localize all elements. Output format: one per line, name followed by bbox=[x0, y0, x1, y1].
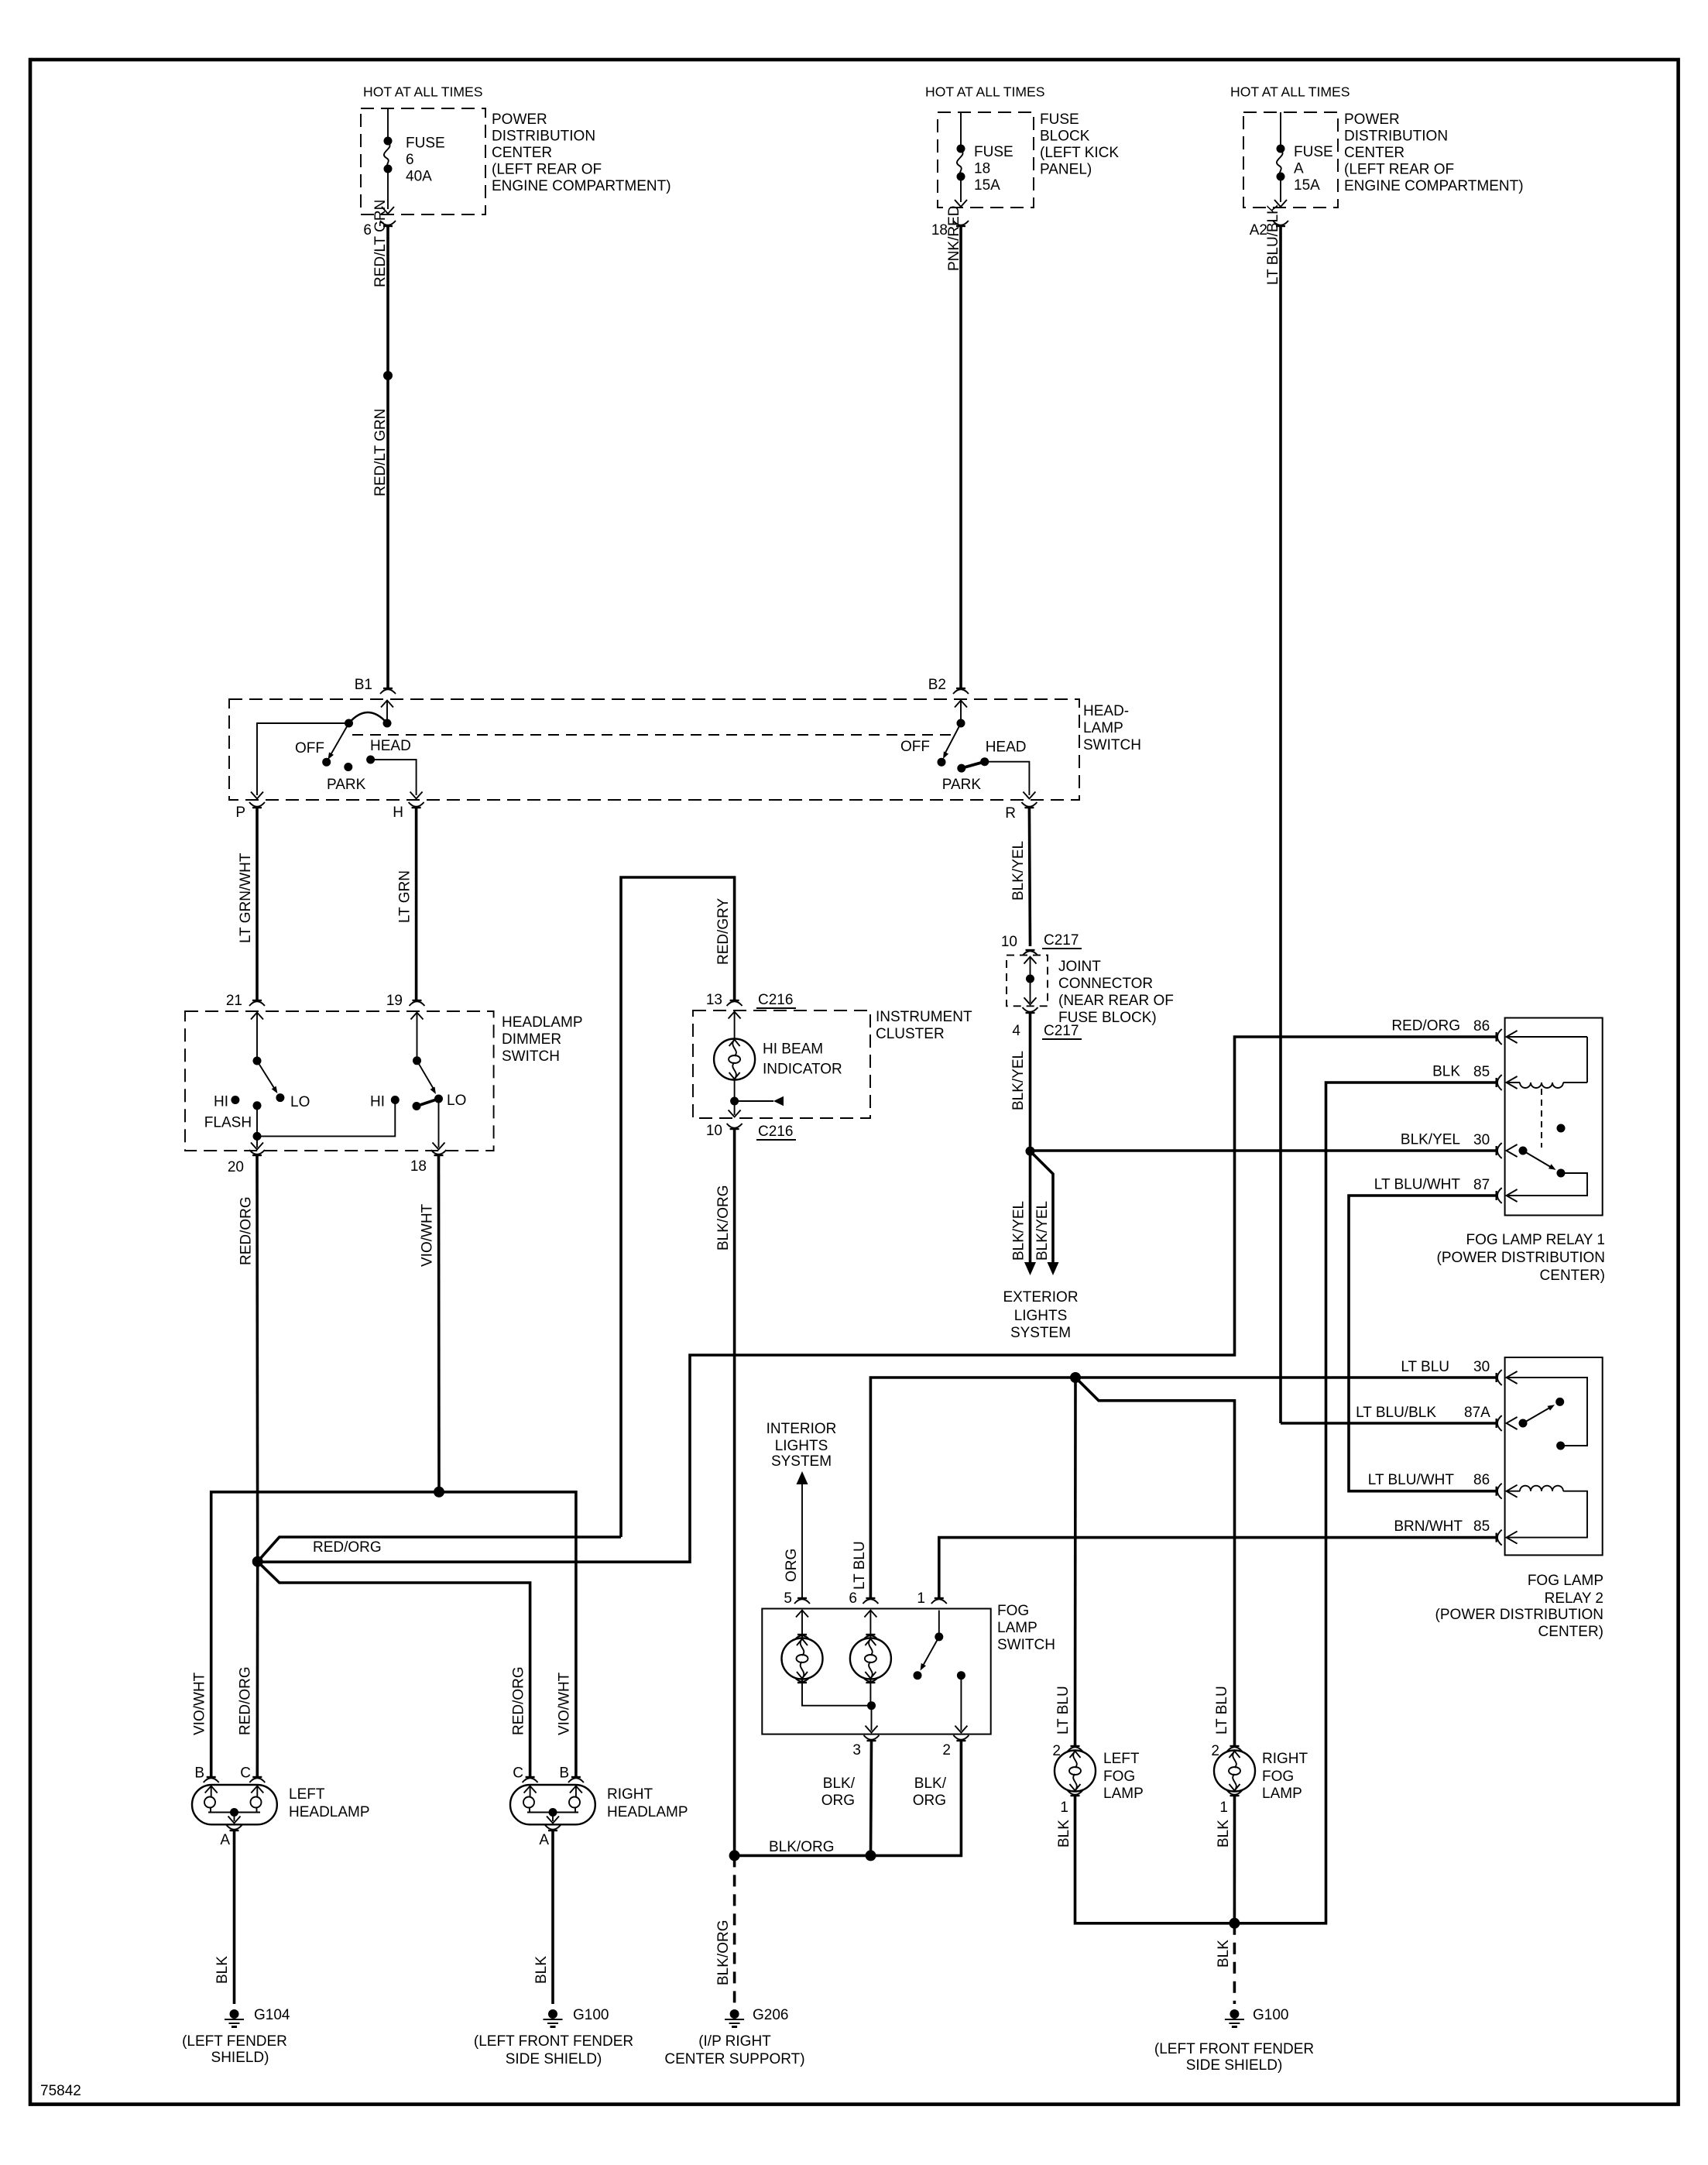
svg-text:15A: 15A bbox=[1294, 177, 1320, 194]
headlamp switch mechanical link (dashed) bbox=[352, 734, 954, 736]
svg-text:JOINT: JOINT bbox=[1058, 959, 1101, 975]
svg-text:LT BLU/BLK: LT BLU/BLK bbox=[1265, 204, 1281, 285]
relay 1 actuator (dashed) bbox=[1541, 1089, 1542, 1148]
svg-text:B2: B2 bbox=[928, 677, 946, 693]
svg-text:20: 20 bbox=[228, 1159, 244, 1175]
svg-text:HI: HI bbox=[214, 1094, 228, 1110]
fog lamp relay 2 box bbox=[1435, 1357, 1603, 1640]
svg-text:CLUSTER: CLUSTER bbox=[876, 1026, 945, 1042]
wire BLK (left fog lamp to ground junction) bbox=[1056, 1796, 1230, 1923]
right headlamp bbox=[510, 1785, 688, 1824]
svg-text:PANEL): PANEL) bbox=[1040, 162, 1092, 178]
svg-text:LAMP: LAMP bbox=[997, 1620, 1037, 1636]
svg-text:RED/ORG: RED/ORG bbox=[511, 1666, 527, 1735]
svg-text:(LEFT FRONT FENDER: (LEFT FRONT FENDER bbox=[474, 2033, 633, 2050]
svg-text:RED/ORG: RED/ORG bbox=[238, 1196, 255, 1265]
connector C216 pin 10 bbox=[706, 1123, 796, 1140]
svg-text:30: 30 bbox=[1473, 1132, 1490, 1148]
svg-text:2: 2 bbox=[1211, 1743, 1219, 1759]
connector H bbox=[393, 802, 424, 821]
right PARK-HEAD bridge bbox=[962, 762, 985, 768]
svg-text:HEAD: HEAD bbox=[986, 739, 1027, 756]
fog lamp switch box bbox=[762, 1603, 1055, 1734]
svg-text:HEADLAMP: HEADLAMP bbox=[502, 1014, 583, 1031]
svg-text:ORG: ORG bbox=[784, 1549, 800, 1582]
fog switch open contact bbox=[914, 1671, 922, 1680]
svg-text:G100: G100 bbox=[1253, 2007, 1288, 2023]
svg-text:VIO/WHT: VIO/WHT bbox=[420, 1203, 436, 1267]
svg-text:LEFT: LEFT bbox=[289, 1786, 325, 1803]
connector right headlamp A bbox=[539, 1825, 561, 1848]
dimmer left LO contact bbox=[276, 1093, 310, 1110]
wire RED/ORG branch to fog lamp relay 1 pin 86 bbox=[258, 1037, 1497, 1562]
svg-text:A: A bbox=[539, 1832, 549, 1848]
svg-text:SYSTEM: SYSTEM bbox=[771, 1453, 832, 1470]
svg-text:FLASH: FLASH bbox=[204, 1115, 252, 1131]
svg-text:86: 86 bbox=[1473, 1472, 1490, 1488]
svg-text:G206: G206 bbox=[753, 2007, 788, 2023]
wire BLK/YEL (splice to fog lamp relay 1 pin 30) bbox=[1031, 1149, 1497, 1152]
connector dimmer 19 bbox=[386, 993, 425, 1009]
svg-text:HEADLAMP: HEADLAMP bbox=[289, 1804, 370, 1820]
svg-text:10: 10 bbox=[1001, 934, 1017, 950]
wire BLK/ORG (fog switch 2 to splice) bbox=[871, 1741, 962, 1855]
svg-text:LT BLU: LT BLU bbox=[852, 1541, 868, 1590]
connector C217 pin 10 bbox=[1001, 932, 1082, 956]
fuse block box (fuse 18) bbox=[938, 112, 1119, 208]
connector pin A2 (PDC output) bbox=[1250, 221, 1288, 238]
svg-text:CENTER SUPPORT): CENTER SUPPORT) bbox=[664, 2051, 804, 2067]
svg-text:BLK/ORG: BLK/ORG bbox=[715, 1920, 732, 1985]
wire VIO/WHT (dimmer 18 down to junction) bbox=[420, 1155, 440, 1492]
joint connector bbox=[1007, 956, 1174, 1026]
dimmer right HI contact bbox=[370, 1094, 400, 1110]
connector left fog lamp 1 bbox=[1060, 1790, 1082, 1816]
dimmer left entry arrow bbox=[251, 1013, 263, 1058]
svg-text:(LEFT FRONT FENDER: (LEFT FRONT FENDER bbox=[1154, 2041, 1314, 2057]
dimmer left wiper (to LO) bbox=[257, 1061, 277, 1093]
svg-text:FOG: FOG bbox=[1103, 1769, 1135, 1785]
svg-text:BLOCK: BLOCK bbox=[1040, 129, 1090, 145]
relay 2 pin 30 bbox=[1401, 1359, 1517, 1385]
dimmer left pivot bbox=[253, 1057, 262, 1065]
svg-text:87: 87 bbox=[1473, 1177, 1490, 1193]
connector C216 pin 13 bbox=[706, 992, 796, 1008]
svg-text:5: 5 bbox=[784, 1590, 792, 1607]
connector right fog lamp 1 bbox=[1219, 1790, 1242, 1816]
wire RED/GRY (cluster 13 to RED/ORG junction) bbox=[621, 877, 735, 1537]
relay 1 upper fixed contact bbox=[1557, 1124, 1566, 1133]
svg-text:ENGINE COMPARTMENT): ENGINE COMPARTMENT) bbox=[1344, 178, 1524, 194]
connector R bbox=[1005, 802, 1037, 822]
svg-text:CENTER): CENTER) bbox=[1540, 1268, 1605, 1284]
wire HEAD contact to H terminal (inside switch) bbox=[371, 760, 423, 799]
svg-text:BLK: BLK bbox=[1216, 1940, 1232, 1968]
fog switch illumination bulb 2 bbox=[850, 1611, 891, 1683]
headlamp switch box bbox=[229, 699, 1141, 800]
svg-text:POWER: POWER bbox=[492, 112, 547, 128]
connector C217 pin 4 bbox=[1012, 1007, 1082, 1039]
svg-text:BLK/YEL: BLK/YEL bbox=[1010, 841, 1027, 901]
dimmer right pivot bbox=[413, 1056, 421, 1065]
dimmer right entry arrow bbox=[411, 1013, 424, 1058]
headlamp switch B1 entry arrow bbox=[381, 701, 393, 721]
svg-text:SYSTEM: SYSTEM bbox=[1010, 1325, 1071, 1341]
relay 1 movable contact bbox=[1519, 1147, 1556, 1170]
relay 1 pin 30 bbox=[1401, 1132, 1518, 1159]
wire ORG (fog switch 5 to interior lights system) bbox=[784, 1471, 808, 1598]
svg-text:BLK/YEL: BLK/YEL bbox=[1401, 1132, 1460, 1148]
splice BLK/YEL bbox=[1026, 1147, 1035, 1156]
svg-text:FOG LAMP: FOG LAMP bbox=[1528, 1573, 1603, 1589]
svg-text:18: 18 bbox=[410, 1158, 427, 1175]
connector B2 bbox=[928, 677, 969, 694]
connector dimmer 20 bbox=[228, 1150, 265, 1175]
wire BLK (right fog lamp to ground junction) bbox=[1216, 1796, 1235, 1923]
junction VIO/WHT bbox=[434, 1487, 444, 1498]
power distribution center box (fuse 6) bbox=[361, 108, 671, 214]
svg-text:FUSE: FUSE bbox=[406, 136, 445, 152]
svg-text:FOG: FOG bbox=[997, 1603, 1029, 1619]
svg-text:HEADLAMP: HEADLAMP bbox=[607, 1804, 688, 1820]
svg-text:FOG: FOG bbox=[1262, 1769, 1294, 1785]
svg-text:VIO/WHT: VIO/WHT bbox=[192, 1672, 208, 1735]
svg-text:13: 13 bbox=[706, 992, 722, 1008]
wire BLK/ORG (fog switch 3 to splice) bbox=[821, 1741, 872, 1855]
svg-text:CENTER: CENTER bbox=[492, 145, 552, 161]
connector left headlamp B bbox=[194, 1765, 218, 1783]
wire LT GRN/WHT (P to dimmer 21) bbox=[238, 808, 257, 1000]
fuse 18 15A bbox=[955, 112, 1013, 207]
wire RED/ORG (dimmer 20 down to junction) bbox=[238, 1155, 258, 1562]
svg-text:INSTRUMENT: INSTRUMENT bbox=[876, 1009, 972, 1025]
right HEAD contact bbox=[980, 739, 1026, 767]
svg-text:1: 1 bbox=[1219, 1800, 1228, 1816]
fuse 6 40A bbox=[382, 108, 445, 214]
svg-text:LEFT: LEFT bbox=[1103, 1751, 1140, 1767]
svg-text:21: 21 bbox=[226, 993, 242, 1009]
left fog lamp bbox=[1055, 1751, 1144, 1803]
relay 2 coil bbox=[1507, 1486, 1587, 1538]
relay 1 lower fixed contact (to 87) bbox=[1507, 1169, 1587, 1196]
svg-text:RED/LT GRN: RED/LT GRN bbox=[372, 200, 389, 287]
svg-text:(LEFT KICK: (LEFT KICK bbox=[1040, 145, 1119, 161]
wire LT GRN (H to dimmer 19) bbox=[397, 808, 417, 1000]
left OFF contact bbox=[295, 740, 331, 767]
svg-text:BLK: BLK bbox=[214, 1956, 231, 1984]
svg-text:BLK/YEL: BLK/YEL bbox=[1010, 1051, 1027, 1110]
wire BLK/YEL to exterior lights (right arrow) bbox=[1031, 1151, 1059, 1275]
wire LT BLU branch to right fog lamp bbox=[1075, 1378, 1235, 1746]
ground G100 (left front fender side shield) bbox=[1154, 2007, 1314, 2074]
wire LT BLU/BLK (fuse A to fog lamp relay 2 pin 87A) bbox=[1265, 204, 1497, 1423]
instrument cluster box bbox=[693, 1009, 972, 1118]
connector right headlamp B bbox=[559, 1765, 584, 1783]
svg-text:SWITCH: SWITCH bbox=[1083, 737, 1141, 753]
relay 2 movable contact bbox=[1519, 1405, 1555, 1427]
dimmer right bridge contact bbox=[413, 1099, 439, 1110]
svg-text:LIGHTS: LIGHTS bbox=[1014, 1308, 1068, 1324]
svg-text:BRN/WHT: BRN/WHT bbox=[1394, 1518, 1463, 1535]
svg-text:6: 6 bbox=[363, 222, 372, 238]
svg-text:RED/GRY: RED/GRY bbox=[715, 897, 732, 965]
wire LT BLU branch to left fog lamp bbox=[1074, 1378, 1077, 1746]
headlamp dimmer switch box bbox=[185, 1011, 583, 1151]
wire BLK (left headlamp to G104) bbox=[214, 1830, 235, 2004]
relay 1 pin 85 bbox=[1432, 1064, 1518, 1091]
svg-text:C: C bbox=[513, 1765, 523, 1782]
svg-text:EXTERIOR: EXTERIOR bbox=[1003, 1289, 1078, 1306]
label INTERIOR LIGHTS SYSTEM bbox=[767, 1421, 837, 1470]
ground G206 bbox=[664, 2007, 804, 2067]
svg-text:RIGHT: RIGHT bbox=[1262, 1751, 1308, 1767]
wire RED/ORG branch to right headlamp C bbox=[258, 1562, 530, 1777]
svg-text:LT BLU/WHT: LT BLU/WHT bbox=[1368, 1472, 1455, 1488]
svg-text:G100: G100 bbox=[573, 2007, 609, 2023]
ground G104 bbox=[182, 2007, 290, 2066]
svg-text:BLK: BLK bbox=[1056, 1820, 1072, 1848]
svg-text:C216: C216 bbox=[758, 1124, 793, 1140]
wire LT BLU (fog switch 6 to junction and relay 2 pin 30) bbox=[852, 1378, 1497, 1598]
splice BLK/ORG (main) bbox=[729, 1850, 740, 1861]
svg-text:(LEFT FENDER: (LEFT FENDER bbox=[182, 2033, 287, 2050]
svg-text:DISTRIBUTION: DISTRIBUTION bbox=[492, 129, 595, 145]
connector fog switch 3 bbox=[852, 1735, 879, 1758]
svg-text:BLK: BLK bbox=[533, 1956, 550, 1984]
connector fog switch 2 bbox=[942, 1735, 969, 1758]
svg-text:ORG: ORG bbox=[913, 1793, 946, 1809]
connector fog switch 6 bbox=[849, 1590, 878, 1607]
svg-text:C: C bbox=[240, 1765, 251, 1782]
svg-text:19: 19 bbox=[386, 993, 403, 1009]
connector dimmer 21 bbox=[226, 993, 265, 1009]
wire VIO/WHT distribution (to both headlamps B) bbox=[211, 1492, 576, 1777]
svg-text:P: P bbox=[235, 805, 245, 821]
connector dimmer 18 bbox=[410, 1150, 447, 1175]
svg-text:1: 1 bbox=[917, 1590, 925, 1607]
connector fog switch 1 bbox=[917, 1590, 946, 1607]
svg-text:BLK/: BLK/ bbox=[823, 1776, 856, 1792]
svg-text:(LEFT REAR OF: (LEFT REAR OF bbox=[492, 162, 602, 178]
svg-text:BLK/ORG: BLK/ORG bbox=[769, 1839, 834, 1855]
fog switch output contact (pin 2) bbox=[955, 1671, 967, 1732]
svg-text:1: 1 bbox=[1060, 1800, 1068, 1816]
svg-text:18: 18 bbox=[931, 222, 948, 238]
svg-text:OFF: OFF bbox=[900, 739, 930, 755]
svg-text:PNK/RED: PNK/RED bbox=[946, 206, 962, 271]
svg-text:PARK: PARK bbox=[327, 777, 366, 793]
dimmer right exit arrow (to 18) bbox=[433, 1103, 445, 1150]
svg-text:HOT AT ALL TIMES: HOT AT ALL TIMES bbox=[1230, 84, 1350, 100]
svg-text:HOT AT ALL TIMES: HOT AT ALL TIMES bbox=[363, 84, 483, 100]
svg-text:ORG: ORG bbox=[821, 1793, 855, 1809]
svg-text:VIO/WHT: VIO/WHT bbox=[557, 1672, 573, 1735]
connector pin 6 (PDC output) bbox=[363, 221, 396, 238]
svg-text:FOG LAMP RELAY 1: FOG LAMP RELAY 1 bbox=[1466, 1232, 1605, 1248]
headlamp switch left rotary contact arc bbox=[345, 712, 392, 728]
fog switch illumination bulb 1 bbox=[782, 1611, 823, 1683]
wire to P terminal (inside switch) bbox=[251, 723, 349, 799]
svg-text:RIGHT: RIGHT bbox=[607, 1786, 653, 1803]
label EXTERIOR LIGHTS SYSTEM bbox=[1003, 1289, 1078, 1341]
svg-text:RELAY 2: RELAY 2 bbox=[1545, 1590, 1603, 1607]
svg-text:30: 30 bbox=[1473, 1359, 1490, 1375]
splice BLK/ORG (fog switch) bbox=[866, 1850, 876, 1861]
wire BLK (right headlamp to G100) bbox=[533, 1830, 553, 2004]
headlamp switch B2 entry arrow bbox=[955, 701, 967, 721]
dimmer left HI contact bbox=[214, 1094, 239, 1110]
svg-text:15A: 15A bbox=[974, 177, 1000, 194]
svg-text:85: 85 bbox=[1473, 1064, 1490, 1080]
wire BLK/YEL (R to joint connector C217) bbox=[1010, 808, 1031, 946]
connector P bbox=[235, 802, 265, 821]
svg-text:3: 3 bbox=[852, 1742, 861, 1758]
svg-text:SIDE SHIELD): SIDE SHIELD) bbox=[506, 2051, 602, 2067]
svg-text:RED/LT GRN: RED/LT GRN bbox=[372, 409, 389, 496]
svg-text:C217: C217 bbox=[1044, 1023, 1079, 1039]
svg-text:RED/ORG: RED/ORG bbox=[238, 1666, 254, 1735]
svg-text:HEAD-: HEAD- bbox=[1083, 703, 1129, 719]
junction LT BLU bbox=[1070, 1372, 1081, 1383]
relay 1 pin 86 bbox=[1391, 1018, 1517, 1045]
junction BLK ground bbox=[1229, 1918, 1240, 1929]
connector left headlamp C bbox=[240, 1765, 265, 1783]
right PARK contact bbox=[942, 764, 982, 793]
wire BLK (relay 1 pin 85 to ground junction) bbox=[1239, 1082, 1497, 1923]
svg-text:LIGHTS: LIGHTS bbox=[775, 1438, 828, 1454]
svg-text:BLK/YEL: BLK/YEL bbox=[1034, 1201, 1051, 1261]
svg-text:40A: 40A bbox=[406, 169, 432, 185]
left PARK contact bbox=[327, 763, 366, 793]
left HEAD contact bbox=[366, 738, 411, 764]
headlamp switch right pivot bbox=[957, 719, 965, 728]
connector right headlamp C bbox=[513, 1765, 537, 1783]
relay 2 pin 85 bbox=[1394, 1518, 1517, 1546]
dimmer flash bus (FLASH to right HI) bbox=[253, 1100, 396, 1141]
svg-text:FUSE: FUSE bbox=[1040, 112, 1079, 128]
fog switch wiper bbox=[921, 1637, 939, 1671]
svg-text:SWITCH: SWITCH bbox=[997, 1637, 1055, 1653]
cluster internal junction + branch triangle bbox=[730, 1080, 784, 1107]
svg-text:BLK: BLK bbox=[1432, 1064, 1460, 1080]
power distribution center box (fuse A) bbox=[1243, 112, 1524, 208]
fog lamp relay 1 box bbox=[1437, 1018, 1605, 1285]
svg-text:BLK: BLK bbox=[1216, 1820, 1232, 1848]
svg-text:LT GRN/WHT: LT GRN/WHT bbox=[238, 853, 254, 943]
hi beam indicator bulb bbox=[714, 1012, 842, 1080]
headlamp switch left wiper (to OFF) bbox=[328, 723, 349, 760]
relay 2 pin 86 bbox=[1368, 1472, 1518, 1499]
right fog lamp bbox=[1214, 1751, 1308, 1803]
connector right fog lamp 2 bbox=[1211, 1743, 1242, 1759]
relay 2 upper fixed contact bbox=[1555, 1398, 1564, 1406]
svg-text:DISTRIBUTION: DISTRIBUTION bbox=[1344, 129, 1448, 145]
svg-text:R: R bbox=[1005, 805, 1016, 822]
connector fog switch 5 bbox=[784, 1590, 810, 1607]
svg-text:HI: HI bbox=[370, 1094, 385, 1110]
wire BLK/ORG (splice to G206, dashed) bbox=[715, 1855, 735, 2004]
svg-text:ENGINE COMPARTMENT): ENGINE COMPARTMENT) bbox=[492, 178, 671, 194]
wire RED/LT GRN (fuse 6 to headlamp switch B1) bbox=[372, 200, 389, 688]
svg-text:LT BLU/WHT: LT BLU/WHT bbox=[1374, 1177, 1461, 1193]
svg-text:DIMMER: DIMMER bbox=[502, 1031, 561, 1048]
svg-text:(POWER DISTRIBUTION: (POWER DISTRIBUTION bbox=[1437, 1250, 1605, 1266]
svg-text:87A: 87A bbox=[1464, 1405, 1490, 1421]
wire BLK/YEL to exterior lights (left arrow) bbox=[1011, 1151, 1037, 1275]
svg-text:LAMP: LAMP bbox=[1262, 1786, 1302, 1802]
wire BLK/ORG (cluster 10 to fog switch splice) bbox=[715, 1129, 735, 1855]
wire HEAD contact to R terminal (inside switch) bbox=[985, 762, 1036, 799]
svg-text:INTERIOR: INTERIOR bbox=[767, 1421, 837, 1437]
svg-text:85: 85 bbox=[1473, 1518, 1490, 1535]
svg-text:6: 6 bbox=[849, 1590, 857, 1607]
relay 2 pin 87A bbox=[1356, 1405, 1517, 1431]
connector left fog lamp 2 bbox=[1052, 1743, 1082, 1759]
relay 2 pin 30 internal link bbox=[1507, 1378, 1587, 1450]
svg-text:FUSE: FUSE bbox=[1294, 144, 1333, 160]
svg-text:86: 86 bbox=[1473, 1018, 1490, 1034]
svg-text:POWER: POWER bbox=[1344, 112, 1400, 128]
svg-text:CENTER: CENTER bbox=[1344, 145, 1404, 161]
fog switch bulb common (to pin 3) bbox=[802, 1680, 878, 1733]
svg-text:C217: C217 bbox=[1044, 932, 1079, 949]
headlamp switch right wiper (to OFF) bbox=[943, 723, 961, 759]
svg-text:75842: 75842 bbox=[40, 2083, 81, 2099]
cluster exit arrow (to 10) bbox=[729, 1101, 741, 1117]
wire BRN/WHT (fog switch 1 to relay 2 pin 85) bbox=[939, 1538, 1497, 1598]
svg-text:BLK/YEL: BLK/YEL bbox=[1011, 1201, 1027, 1261]
svg-text:2: 2 bbox=[942, 1742, 951, 1758]
splice on RED/LT GRN bbox=[383, 371, 393, 380]
svg-text:OFF: OFF bbox=[295, 740, 324, 757]
svg-text:CENTER): CENTER) bbox=[1538, 1624, 1603, 1640]
fuse A 15A bbox=[1274, 112, 1333, 207]
svg-text:LAMP: LAMP bbox=[1083, 720, 1123, 736]
left headlamp bbox=[192, 1785, 370, 1824]
svg-text:A: A bbox=[220, 1832, 230, 1848]
connector pin 18 (fuse block output) bbox=[931, 221, 969, 238]
wire BLK/YEL (C217 to splice) bbox=[1010, 1013, 1031, 1151]
svg-text:LT GRN: LT GRN bbox=[397, 870, 413, 923]
svg-text:10: 10 bbox=[706, 1123, 722, 1139]
svg-text:B: B bbox=[194, 1765, 204, 1782]
relay 1 coil bbox=[1507, 1037, 1587, 1088]
svg-text:BLK/: BLK/ bbox=[914, 1776, 947, 1792]
dimmer right wiper (to LO) bbox=[417, 1061, 437, 1094]
connector left headlamp A bbox=[220, 1825, 242, 1848]
svg-text:CONNECTOR: CONNECTOR bbox=[1058, 976, 1153, 992]
svg-text:PARK: PARK bbox=[942, 777, 982, 793]
svg-text:RED/ORG: RED/ORG bbox=[1391, 1018, 1460, 1034]
fog switch contact feed (pin 1) bbox=[935, 1611, 943, 1642]
dimmer right LO contact bbox=[434, 1093, 466, 1109]
svg-text:LT BLU: LT BLU bbox=[1214, 1686, 1230, 1734]
svg-text:C216: C216 bbox=[758, 992, 793, 1008]
right OFF contact bbox=[900, 739, 946, 767]
relay 1 pin 87 bbox=[1374, 1177, 1518, 1204]
svg-text:HOT AT ALL TIMES: HOT AT ALL TIMES bbox=[925, 84, 1045, 100]
svg-text:(POWER DISTRIBUTION: (POWER DISTRIBUTION bbox=[1435, 1607, 1603, 1623]
svg-text:B: B bbox=[559, 1765, 569, 1782]
svg-text:H: H bbox=[393, 805, 403, 821]
svg-text:HI BEAM: HI BEAM bbox=[763, 1041, 823, 1058]
svg-text:G104: G104 bbox=[254, 2007, 290, 2023]
svg-text:(LEFT REAR OF: (LEFT REAR OF bbox=[1344, 162, 1454, 178]
svg-text:(I/P RIGHT: (I/P RIGHT bbox=[698, 2033, 771, 2050]
wire BLK/ORG (splice bus to cluster wire) bbox=[735, 1839, 871, 1855]
wire BLK (junction to G100, dashed) bbox=[1216, 1923, 1234, 2004]
dimmer left FLASH contact bbox=[204, 1101, 262, 1131]
